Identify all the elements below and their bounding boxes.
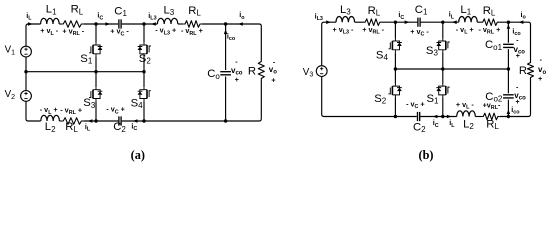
svg-text:(a): (a) — [131, 148, 145, 162]
current arrow io (a) — [238, 22, 243, 26]
transistor S4 (b) — [389, 38, 402, 52]
node b-mid-3 — [507, 67, 510, 70]
node a-top-2 — [142, 22, 145, 25]
node b-mid-2 — [441, 67, 444, 70]
svg-text:+: + — [538, 76, 542, 83]
wire: (b) left rail V3 bottom to bottom-left corner — [322, 76, 417, 116]
current arrow iC (b bottom) — [433, 115, 438, 119]
wire: (b) middle wire — [395, 68, 508, 70]
current arrow iC (a bottom) — [133, 119, 138, 123]
inductor L1 (b) — [459, 16, 478, 22]
wire — [83, 120, 118, 122]
wire: Co branch middle — [507, 49, 509, 93]
wire: (a) left rail V1 bottom to V2 top — [25, 57, 27, 91]
wire: S2 source to bottom (b) — [394, 98, 396, 117]
svg-text:+: + — [235, 77, 239, 84]
node b-bot-1 — [394, 115, 397, 118]
node a-mid-1 — [94, 70, 97, 73]
transistor S3 — [89, 87, 102, 101]
current arrow iL (b top) — [452, 20, 457, 24]
inductor L3 (b) — [336, 16, 355, 22]
voltage source V3 — [316, 66, 327, 77]
wire — [421, 21, 459, 23]
wire: S3 drain (b) — [442, 22, 444, 38]
voltage source V1 — [21, 46, 32, 57]
capacitor C1 (a) — [119, 19, 121, 28]
wire: Co1 branch top — [507, 22, 509, 43]
wire — [83, 23, 118, 25]
wire — [477, 21, 481, 23]
node a-top-1 — [94, 22, 97, 25]
inductor L1 — [41, 18, 60, 24]
current arrow iL (b bottom) — [447, 115, 452, 119]
inductor L2 (b) — [457, 111, 476, 117]
svg-text:R: R — [248, 66, 256, 78]
wire: (a) left rail V2 bottom to bottom-left corner — [26, 101, 41, 121]
wire: S2 source to middle — [143, 56, 145, 71]
capacitor Co1 — [503, 44, 514, 47]
current arrow iC (b top) — [405, 20, 410, 24]
node b-mid-1 — [394, 67, 397, 70]
node a-bot-1 — [94, 119, 97, 122]
node a-bot-2 — [142, 119, 145, 122]
wire: Co2 branch bottom — [507, 100, 509, 117]
wire — [122, 119, 262, 121]
transistor S2 — [138, 42, 151, 56]
node b-top-1 — [394, 21, 397, 24]
resistor RL (a top left) — [61, 21, 83, 28]
wire: S4 drain (b) — [394, 22, 396, 38]
wire: S3 drain — [95, 72, 97, 87]
current arrow ico1 (b) — [507, 24, 511, 28]
wire — [355, 21, 364, 23]
wire — [59, 23, 61, 25]
wire: S1 source to bottom (b) — [442, 98, 444, 117]
wire — [382, 21, 418, 23]
svg-text:+: + — [516, 53, 520, 60]
current arrow iL3 (b) — [326, 20, 331, 24]
resistor R (b load) — [528, 61, 534, 79]
inductor L2 (a) — [41, 115, 60, 121]
capacitor Co — [220, 72, 231, 75]
wire — [178, 23, 183, 25]
node b-bot-2 — [441, 115, 444, 118]
transistor S2 (b) — [389, 84, 402, 98]
transistor S1 — [89, 42, 102, 56]
wire — [420, 116, 456, 118]
voltage source V2 — [21, 91, 32, 102]
transistor S3 (b) — [436, 38, 449, 52]
wire: S3 source to bottom — [95, 101, 97, 121]
node a-top-3 — [224, 22, 227, 25]
wire: (a) middle wire — [26, 71, 144, 73]
wire: S2 drain — [143, 24, 145, 42]
inductor L3 (a) — [157, 18, 177, 24]
capacitor C1 (b) — [418, 18, 420, 27]
wire: Co branch bottom — [225, 77, 227, 122]
wire — [475, 116, 481, 118]
current arrow ico2 (b) — [507, 110, 511, 114]
wire: S4 source to middle (b) — [394, 52, 396, 69]
wire: S1 drain (b) — [442, 69, 444, 84]
resistor RL (b bottom) — [482, 113, 500, 120]
wire: S2 drain (b) — [394, 69, 396, 84]
node a-bot-3 — [224, 119, 227, 122]
resistor RL (b top right) — [481, 19, 499, 26]
wire: (b) top-left corner and top wire to L3 — [322, 22, 336, 66]
transistor S1 (b) — [436, 84, 449, 98]
node V1-V2 junction — [24, 70, 27, 73]
wire — [122, 23, 158, 25]
current arrow iC (a top) — [105, 22, 110, 26]
wire: S4 drain — [143, 72, 145, 87]
current arrow iL (a top) — [28, 22, 33, 26]
svg-text:+: + — [516, 99, 520, 106]
wire — [59, 120, 61, 122]
wire: S1 source to middle — [95, 56, 97, 71]
current arrow iL3 (a top) — [151, 22, 156, 26]
node b-top-3 — [507, 21, 510, 24]
current arrow ico (a) — [224, 29, 228, 34]
wire: S3 source to middle (b) — [442, 52, 444, 69]
resistor RL (a top right) — [183, 21, 202, 28]
transistor S4 — [138, 87, 151, 101]
svg-text:(b): (b) — [419, 148, 434, 162]
resistor R (a load) — [258, 60, 264, 80]
node b-bot-3 — [507, 115, 510, 118]
svg-text:+: + — [271, 77, 275, 84]
svg-text:R: R — [519, 65, 527, 77]
capacitor C2 (b) — [418, 112, 420, 121]
wire: S4 source to bottom — [143, 101, 145, 121]
wire: S1 drain — [95, 24, 97, 42]
node b-top-2 — [441, 21, 444, 24]
wire: Co branch top — [225, 24, 227, 70]
wire: (a) top-left corner and top wire to L1 — [26, 24, 41, 46]
current arrow io (b) — [519, 20, 524, 24]
resistor RL (b top left) — [363, 19, 381, 26]
wire — [499, 22, 530, 61]
current arrow iL (a bottom) — [88, 119, 93, 123]
capacitor Co2 — [503, 95, 514, 98]
wire — [500, 114, 531, 116]
resistor RL (a bottom) — [61, 118, 83, 125]
wire — [202, 24, 261, 60]
wire: (b) right edge below R — [530, 79, 532, 114]
wire: (a) right edge below R — [260, 80, 262, 119]
capacitor C2 (a) — [119, 116, 121, 125]
node a-mid-2 — [142, 70, 145, 73]
